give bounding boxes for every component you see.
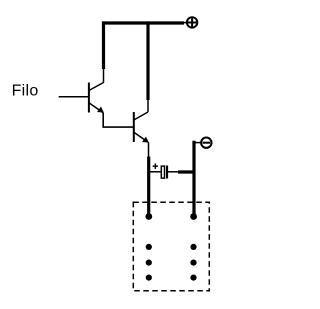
wire base of Q1	[59, 96, 89, 98]
lead Q2 collector thin	[147, 99, 149, 112]
wire Q2 collector vertical	[146, 21, 149, 100]
junction dot left terminal	[145, 213, 152, 220]
contact dot left 3	[146, 275, 152, 281]
connector block dashed outline	[133, 202, 209, 291]
wire Q2 emitter vertical	[147, 157, 150, 217]
wire top supply rail	[102, 21, 184, 24]
lead Q2 emitter thin	[148, 142, 150, 158]
negative supply terminal	[194, 138, 212, 148]
contact dot right 1	[190, 244, 196, 250]
positive supply terminal	[187, 17, 197, 27]
wire Q1 emitter to Q2 base	[103, 113, 134, 127]
contact dot left 1	[146, 244, 152, 250]
contact dot left 2	[146, 260, 152, 266]
capacitor C1	[150, 166, 180, 179]
capacitor C1 polarity plus	[153, 164, 158, 169]
lead Q1 collector thin	[103, 68, 105, 83]
svg-text:Filo: Filo	[12, 83, 39, 100]
transistor Q2	[134, 112, 149, 143]
transistor Q1	[89, 83, 104, 113]
wire capacitor to negative rail	[178, 170, 196, 173]
junction dot right terminal	[190, 213, 197, 220]
contact dot right 3	[190, 275, 196, 281]
contact dot right 2	[190, 260, 196, 266]
wire Q1 collector vertical	[102, 21, 105, 69]
wire negative vertical	[192, 141, 195, 217]
